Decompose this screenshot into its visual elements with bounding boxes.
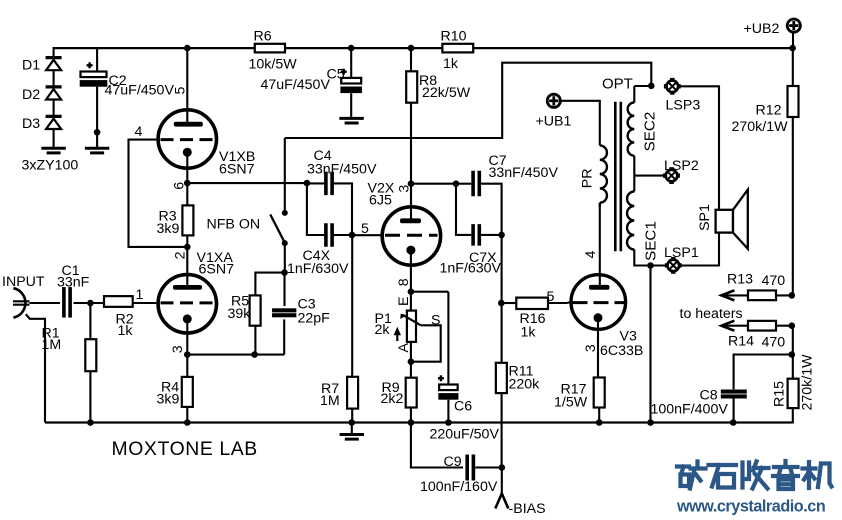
capacitor C4: [307, 182, 324, 184]
node R17 bottom: [596, 419, 603, 426]
wire input to C1: [30, 302, 61, 304]
capacitor C6: [411, 291, 449, 293]
node V2X plate: [408, 180, 415, 187]
wire C7X left riser: [456, 184, 471, 235]
wire pin6 node to C4: [187, 182, 307, 184]
svg-text:1nF/630V: 1nF/630V: [287, 261, 349, 277]
node R1 bottom: [87, 419, 94, 426]
svg-text:3k9: 3k9: [157, 392, 180, 408]
node LSP1 junction: [647, 262, 654, 269]
svg-text:6J5: 6J5: [369, 193, 392, 209]
svg-text:5: 5: [173, 86, 189, 94]
node pin6: [184, 180, 191, 187]
node R5 bottom: [251, 351, 258, 358]
wire switch to RC: [284, 243, 286, 273]
wire to V2X grid: [352, 234, 383, 236]
svg-text:1k: 1k: [118, 323, 134, 339]
diode D1: [46, 56, 62, 59]
watermark logo ji: [803, 462, 816, 488]
wire LSP3 to speaker: [679, 86, 719, 210]
svg-text:LSP2: LSP2: [664, 158, 699, 174]
wire V2X cathode: [410, 253, 412, 292]
capacitor C7X: [471, 224, 475, 246]
svg-text:1nF/630V: 1nF/630V: [440, 261, 502, 277]
svg-text:LSP3: LSP3: [666, 98, 701, 114]
triode V2X: [410, 184, 412, 219]
resistor R4: [186, 355, 188, 377]
node R7 bottom with ground: [349, 419, 356, 426]
resistor R9: [410, 362, 412, 378]
svg-text:SEC2: SEC2: [641, 112, 658, 152]
triode V1XB: [158, 110, 216, 168]
diode D2: [46, 85, 62, 88]
node pin8: [408, 288, 415, 295]
svg-text:22k/5W: 22k/5W: [422, 85, 471, 101]
wire C4X left riser: [307, 183, 324, 235]
svg-text:C6: C6: [454, 399, 472, 415]
transformer secondary SEC2: [633, 86, 635, 103]
wire UB1 to PR: [561, 101, 600, 146]
resistor R10: [442, 44, 473, 53]
svg-text:2k: 2k: [375, 322, 391, 338]
svg-text:6SN7: 6SN7: [219, 162, 255, 178]
triode V3: [571, 275, 626, 330]
wire V1XB grid to NFB loop: [129, 140, 188, 247]
svg-text:PR: PR: [580, 169, 596, 189]
svg-text:2k2: 2k2: [381, 391, 404, 407]
terminal +UB1: [547, 94, 560, 107]
svg-text:R13: R13: [727, 272, 753, 288]
node pin3: [184, 351, 191, 358]
resistor R11: [496, 363, 507, 393]
wire V2X plate to C7: [411, 183, 456, 185]
node R8 top: [408, 45, 415, 52]
svg-text:LSP1: LSP1: [664, 245, 699, 261]
node LSP3: [648, 83, 655, 90]
wire wiper to bottom: [411, 325, 441, 361]
svg-text:INPUT: INPUT: [2, 274, 45, 290]
svg-text:1M: 1M: [320, 393, 340, 409]
transformer core: [614, 102, 617, 252]
svg-text:1k: 1k: [521, 325, 537, 341]
resistor R8: [410, 48, 412, 71]
svg-text:to heaters: to heaters: [680, 306, 743, 322]
input jack: [13, 288, 25, 317]
svg-text:D3: D3: [22, 116, 40, 132]
svg-text:-BIAS: -BIAS: [509, 501, 546, 517]
wire to -BIAS: [501, 468, 503, 495]
transformer secondary SEC1: [627, 192, 634, 250]
capacitor C4X: [324, 223, 328, 247]
svg-text:33nF: 33nF: [57, 275, 90, 291]
svg-text:22pF: 22pF: [298, 311, 331, 327]
wire LSP1 to ground rail: [649, 266, 651, 423]
node LSP1 rail: [647, 419, 654, 426]
wire UB2 to rail: [792, 32, 794, 48]
node R1 top: [87, 300, 94, 307]
node R4 bottom: [184, 419, 191, 426]
capacitor C2: [96, 48, 98, 71]
triode V1XA: [186, 247, 188, 285]
node C7 left: [453, 180, 460, 187]
svg-text:SP1: SP1: [697, 204, 713, 231]
resistor R15: [792, 355, 794, 379]
svg-text:1k: 1k: [443, 56, 459, 72]
switch NFB ON: [284, 138, 286, 213]
svg-text:1M: 1M: [42, 337, 62, 353]
svg-text:39k: 39k: [228, 306, 252, 322]
node R16 tap: [498, 300, 505, 307]
capacitor C1: [62, 287, 66, 318]
resistor R6: [255, 44, 285, 53]
potentiometer P1: [410, 292, 412, 311]
resistor R5: [255, 273, 284, 296]
svg-text:R12: R12: [756, 103, 782, 119]
svg-text:R15: R15: [772, 381, 788, 407]
svg-text:SEC1: SEC1: [642, 221, 659, 261]
svg-text:100nF/400V: 100nF/400V: [651, 402, 729, 418]
wire NFB feedback line: [285, 63, 652, 138]
svg-text:220k: 220k: [509, 377, 541, 393]
watermark logo yin: [773, 461, 798, 476]
resistor R12: [792, 48, 794, 86]
node V1XA plate: [184, 244, 191, 251]
resistor R3: [186, 183, 188, 205]
wire SEC tap: [633, 156, 635, 192]
node C7X right: [498, 232, 505, 239]
capacitor C5: [350, 48, 352, 78]
wire V1XB plate lead: [184, 45, 191, 52]
node NFB RC top: [281, 269, 288, 276]
wire SEC2 top to LSP3: [634, 85, 651, 87]
svg-text:220uF/50V: 220uF/50V: [430, 427, 500, 443]
node R9 bottom: [408, 419, 415, 426]
capacitor C7: [456, 183, 471, 185]
ground below C2: [96, 132, 98, 148]
svg-text:8: 8: [396, 278, 412, 286]
node C5 top: [348, 45, 355, 52]
wire V3 grid lead: [568, 302, 575, 304]
ground below diode chain: [53, 129, 55, 148]
node UB2 rail: [789, 45, 796, 52]
svg-text:6SN7: 6SN7: [199, 262, 235, 278]
svg-text:10k/5W: 10k/5W: [249, 57, 298, 73]
svg-text:+UB1: +UB1: [536, 114, 572, 130]
adjust arrow: [396, 330, 398, 341]
wire C1 to R2: [74, 302, 105, 304]
wire main ground rail: [45, 421, 792, 423]
terminal LSP3: [667, 81, 679, 93]
svg-text:R10: R10: [441, 29, 467, 45]
node C9 right: [499, 464, 506, 471]
svg-text:3: 3: [170, 345, 186, 353]
resistor R16: [502, 302, 517, 304]
resistor R2: [104, 296, 133, 307]
svg-text:6C33B: 6C33B: [600, 343, 643, 359]
wire V3 plate lead: [599, 203, 601, 285]
svg-text:OPT: OPT: [602, 76, 633, 93]
resistor R7: [347, 377, 358, 409]
svg-text:6: 6: [172, 182, 188, 190]
node C4 left: [304, 180, 311, 187]
resistor R17: [594, 378, 605, 408]
svg-text:33nF/450V: 33nF/450V: [489, 165, 559, 181]
capacitor C3: [283, 273, 285, 306]
svg-text:100nF/160V: 100nF/160V: [420, 479, 498, 495]
node C8 branch: [789, 351, 796, 358]
wire SEC1 bottom to LSP1: [634, 250, 666, 266]
speaker SP1: [716, 210, 733, 233]
svg-text:D2: D2: [22, 87, 40, 103]
svg-text:3k9: 3k9: [157, 221, 180, 237]
node C6 bottom: [445, 419, 452, 426]
svg-text:1/5W: 1/5W: [554, 395, 588, 411]
svg-text:C9: C9: [444, 454, 462, 470]
watermark logo shou: [743, 463, 750, 488]
svg-text:47uF/450V: 47uF/450V: [105, 83, 175, 99]
svg-text:2: 2: [172, 251, 188, 259]
resistor R1: [89, 303, 91, 339]
svg-text:R6: R6: [254, 29, 272, 45]
resistor R14: [721, 321, 734, 331]
svg-text:NFB ON: NFB ON: [207, 217, 261, 233]
svg-text:+UB2: +UB2: [744, 21, 780, 37]
svg-text:A: A: [396, 343, 412, 353]
node C2 lower: [94, 129, 101, 136]
wire V3 cathode: [597, 320, 599, 378]
wire input sleeve to ground: [26, 314, 45, 422]
svg-text:470: 470: [762, 273, 786, 289]
svg-text:1: 1: [136, 287, 144, 303]
terminal LSP1: [668, 260, 680, 272]
watermark logo kuang: [677, 467, 689, 487]
svg-text:E: E: [396, 296, 412, 305]
svg-text:www.crystalradio.cn: www.crystalradio.cn: [676, 498, 825, 516]
capacitor C8: [734, 355, 793, 390]
watermark logo shi: [709, 465, 737, 488]
node V2X grid: [349, 232, 356, 239]
ground below C5: [339, 117, 363, 120]
node P1 bottom: [408, 358, 415, 365]
wire V1XB cathode: [186, 155, 188, 183]
svg-text:3: 3: [397, 185, 413, 193]
wire R2 to V1XA grid: [133, 302, 157, 304]
svg-text:R14: R14: [728, 334, 754, 350]
wire V1XA cathode: [186, 321, 188, 355]
terminal LSP2: [666, 170, 678, 182]
node C8 bottom: [730, 419, 737, 426]
wire speaker return: [681, 233, 720, 266]
svg-text:D1: D1: [22, 58, 40, 74]
svg-text:270k/1W: 270k/1W: [732, 119, 789, 135]
node R13: [789, 292, 796, 299]
svg-text:3: 3: [583, 344, 599, 352]
capacitor C9: [411, 423, 463, 468]
wire top B+ rail: [53, 47, 255, 49]
resistor R13: [721, 290, 734, 300]
svg-text:MOXTONE LAB: MOXTONE LAB: [112, 438, 258, 460]
wire grid feed V3: [501, 235, 503, 363]
svg-text:4: 4: [583, 251, 599, 259]
wire V1XA cathode to RC: [187, 354, 284, 356]
node R14: [789, 322, 796, 329]
wire grid leak feed: [351, 235, 353, 377]
svg-text:3xZY100: 3xZY100: [22, 158, 79, 174]
svg-text:47uF/450V: 47uF/450V: [261, 77, 331, 93]
diode D3: [46, 115, 62, 118]
terminal +UB2: [787, 19, 800, 32]
wire R14 to C8 node: [792, 326, 794, 355]
svg-text:5: 5: [547, 289, 555, 305]
svg-text:33nF/450V: 33nF/450V: [307, 162, 377, 178]
svg-text:470: 470: [762, 335, 786, 351]
svg-text:4: 4: [135, 124, 143, 140]
transformer primary PR: [600, 146, 607, 203]
svg-text:270k/1W: 270k/1W: [800, 354, 816, 411]
